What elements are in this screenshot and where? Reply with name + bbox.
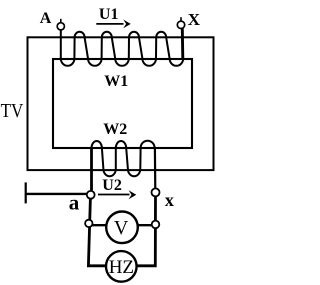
svg-text:W1: W1 xyxy=(104,73,128,90)
svg-text:x: x xyxy=(165,190,174,210)
svg-text:TV: TV xyxy=(1,100,24,122)
svg-text:W2: W2 xyxy=(103,121,127,138)
svg-text:U2: U2 xyxy=(102,177,122,194)
svg-text:V: V xyxy=(114,217,129,239)
svg-text:a: a xyxy=(69,191,80,215)
svg-text:A: A xyxy=(40,10,52,27)
svg-text:X: X xyxy=(188,10,201,29)
svg-text:U1: U1 xyxy=(99,6,119,23)
svg-text:HZ: HZ xyxy=(109,257,134,278)
